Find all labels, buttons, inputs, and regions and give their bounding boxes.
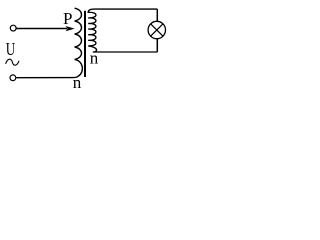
svg-text:U: U — [6, 39, 16, 59]
AC sine symbol ~ — [6, 59, 19, 65]
slider arrow P (wiper on primary) — [66, 26, 75, 31]
terminal X2 (bottom input) — [10, 75, 16, 81]
lamp HL (cross) — [151, 24, 163, 36]
svg-text:n: n — [90, 49, 99, 68]
svg-text:P: P — [63, 9, 72, 28]
terminal X1 (top input) — [10, 25, 16, 31]
secondary coil L2, 6 turns, with top wire — [88, 9, 157, 52]
wire (bottom input) + primary coil L1, 5 turns — [16, 8, 82, 78]
svg-text:n: n — [73, 73, 82, 91]
wire (right vertical through lamp) — [156, 9, 158, 52]
core (iron core bar) — [84, 11, 86, 77]
wire (top input to slider arrow) — [16, 28, 67, 30]
lamp HL (circle) — [148, 21, 165, 38]
